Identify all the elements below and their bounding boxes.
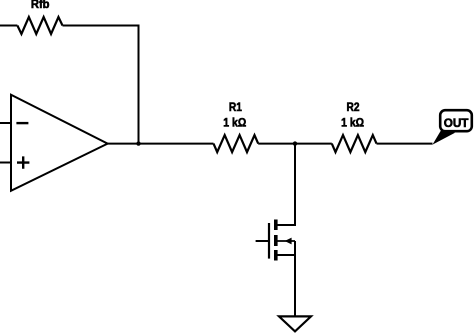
transistor M1 channel middle bar (body) — [274, 235, 278, 246]
svg-text:R1: R1 — [229, 100, 242, 114]
wire: junction down to drain — [276, 144, 295, 225]
wire: R1 to R2 — [258, 143, 332, 145]
resistor R1 — [214, 135, 259, 152]
wire: Rfb left lead — [0, 25, 17, 27]
node: drain junction — [293, 141, 297, 145]
node OUT flag box — [440, 110, 472, 131]
svg-text:Rfb: Rfb — [31, 0, 50, 11]
resistor R2 — [332, 135, 377, 152]
transistor M1 channel bottom bar (source) — [274, 250, 278, 261]
wire: op-amp output to R1 — [106, 143, 214, 145]
svg-text:OUT: OUT — [444, 116, 469, 130]
svg-text:1 kΩ: 1 kΩ — [341, 115, 364, 129]
ground — [279, 316, 311, 331]
wire: non-inverting input lead — [0, 162, 11, 164]
op-amp U1 — [11, 95, 108, 191]
wire: Rfb right + feedback vertical — [63, 26, 139, 144]
node: feedback junction — [136, 141, 140, 145]
resistor Rfb — [17, 17, 62, 34]
wire: R2 to OUT flag — [377, 143, 433, 145]
transistor M1 channel top bar (drain) — [274, 220, 278, 231]
op-amp plus sign — [17, 156, 29, 168]
wire: inverting input lead — [0, 122, 11, 124]
svg-text:R2: R2 — [347, 100, 360, 114]
transistor M1 body wire — [278, 240, 296, 242]
transistor M1 source contact — [278, 254, 296, 256]
svg-text:1 kΩ: 1 kΩ — [223, 115, 246, 129]
transistor M1 gate plate — [268, 223, 270, 259]
transistor M1 gate lead — [256, 240, 268, 242]
op-amp minus sign — [16, 122, 28, 124]
transistor M1 body arrow — [285, 238, 292, 245]
wire: source down to ground — [294, 241, 296, 316]
node OUT flag pointer — [433, 130, 456, 145]
